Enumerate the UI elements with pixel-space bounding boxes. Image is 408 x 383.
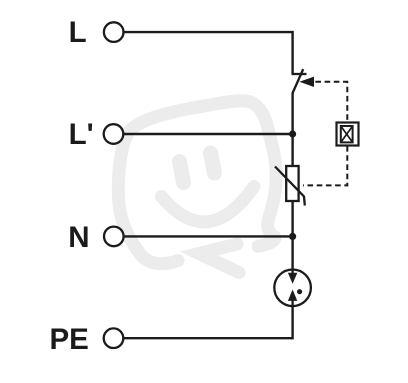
- indicator box outer: [337, 123, 359, 146]
- terminal circle N: [104, 227, 124, 247]
- actuator arrow: [299, 77, 314, 87]
- indicator X diagonal 2: [341, 126, 353, 142]
- wire vertical from L corner to disconnect: [291, 31, 293, 74]
- junction dot N: [289, 233, 296, 240]
- indicator box inner: [341, 126, 353, 142]
- varistor R1 diagonal with tail: [275, 167, 305, 206]
- svg-text:PE: PE: [50, 323, 89, 356]
- spark gap gas dot: [297, 289, 302, 294]
- spark gap electrode arrow up: [291, 301, 293, 307]
- watermark logo (Phoenix Contact smiley): [118, 101, 276, 273]
- disconnect switch F1 blade: [292, 69, 303, 93]
- dashed link indicator to varistor: [303, 146, 347, 185]
- spark gap electrode arrow down: [291, 269, 293, 274]
- svg-text:N: N: [68, 221, 89, 254]
- terminal circle PE: [104, 328, 124, 348]
- wire L horizontal: [124, 31, 293, 33]
- svg-text:L': L': [69, 118, 94, 151]
- terminal circle L': [104, 124, 124, 144]
- spark gap F2 circle: [274, 270, 311, 307]
- dashed link arrow to indicator: [315, 82, 347, 122]
- wire PE horizontal: [124, 337, 293, 339]
- wire L' horizontal: [124, 133, 293, 135]
- svg-text:L: L: [69, 16, 87, 49]
- wire vertical spark gap to PE corner: [291, 306, 292, 338]
- varistor R1 body: [286, 166, 298, 201]
- wire vertical varistor to spark gap: [291, 201, 293, 269]
- terminal circle L: [104, 22, 124, 42]
- disconnect switch F1 fixed contact bar: [292, 73, 307, 75]
- wire vertical disconnect to varistor: [291, 93, 293, 166]
- junction dot L': [289, 130, 296, 137]
- wire N horizontal: [124, 235, 293, 237]
- indicator X diagonal 1: [341, 126, 353, 142]
